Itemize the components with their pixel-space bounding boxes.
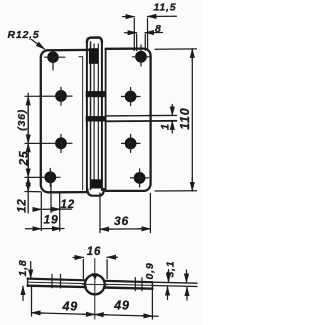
svg-text:19: 19 (44, 213, 59, 227)
11,5 dim line (123, 16, 135, 18)
svg-text:36: 36 (114, 214, 129, 228)
strip lines (28, 279, 153, 283)
1,8 dim arrows (30, 262, 32, 279)
bottom 12 dim (33, 208, 72, 210)
barrel dark blocks (89, 48, 98, 64)
svg-text:1: 1 (160, 123, 172, 130)
knuckle joint lines across right plate (106, 114, 177, 117)
dark wedge at circle top (91, 273, 98, 279)
svg-text:25: 25 (17, 151, 31, 167)
49 dims (31, 287, 33, 316)
left plate inner fold line (79, 57, 83, 190)
screw ticks (52, 274, 61, 288)
1 dim (171, 105, 173, 116)
8 dim line (125, 32, 137, 34)
top dims 11,5 and 8 : extension lines (133, 19, 135, 51)
svg-text:12: 12 (61, 199, 75, 211)
holes: left plate (44, 51, 147, 184)
barrel verticals (86, 42, 88, 191)
16 dim (83, 260, 107, 279)
svg-text:(36): (36) (16, 109, 28, 131)
svg-text:8: 8 (155, 23, 162, 35)
svg-text:3,1: 3,1 (165, 261, 177, 278)
left plate outline (41, 50, 90, 192)
36 dim (99, 193, 101, 233)
svg-text:R12,5: R12,5 (8, 29, 40, 41)
knuckle circle (85, 275, 105, 295)
R12,5 leader (32, 40, 45, 50)
bottom 19 dim (25, 228, 64, 230)
svg-text:49: 49 (113, 298, 130, 312)
svg-text:49: 49 (62, 300, 79, 314)
holes: right plate (135, 51, 147, 63)
circle centerlines (94, 259, 96, 320)
vertical extensions below plate (40, 193, 42, 231)
svg-text:1,8: 1,8 (17, 260, 29, 277)
svg-text:0,9: 0,9 (144, 263, 156, 280)
right extension lines (152, 282, 197, 283)
svg-text:12: 12 (17, 198, 29, 212)
0,9 / 3,1 arrows (168, 270, 170, 283)
hole crosshairs (25, 45, 150, 187)
barrel bottom dome (87, 189, 104, 196)
110 dim (155, 48, 197, 50)
left chain dim line segments (27, 96, 29, 143)
svg-text:110: 110 (178, 107, 192, 129)
svg-text:11,5: 11,5 (154, 1, 177, 13)
barrel top dome (87, 38, 102, 42)
left chain extension bottom edge (25, 191, 41, 193)
svg-text:16: 16 (87, 246, 101, 258)
right plate outline (106, 49, 151, 191)
